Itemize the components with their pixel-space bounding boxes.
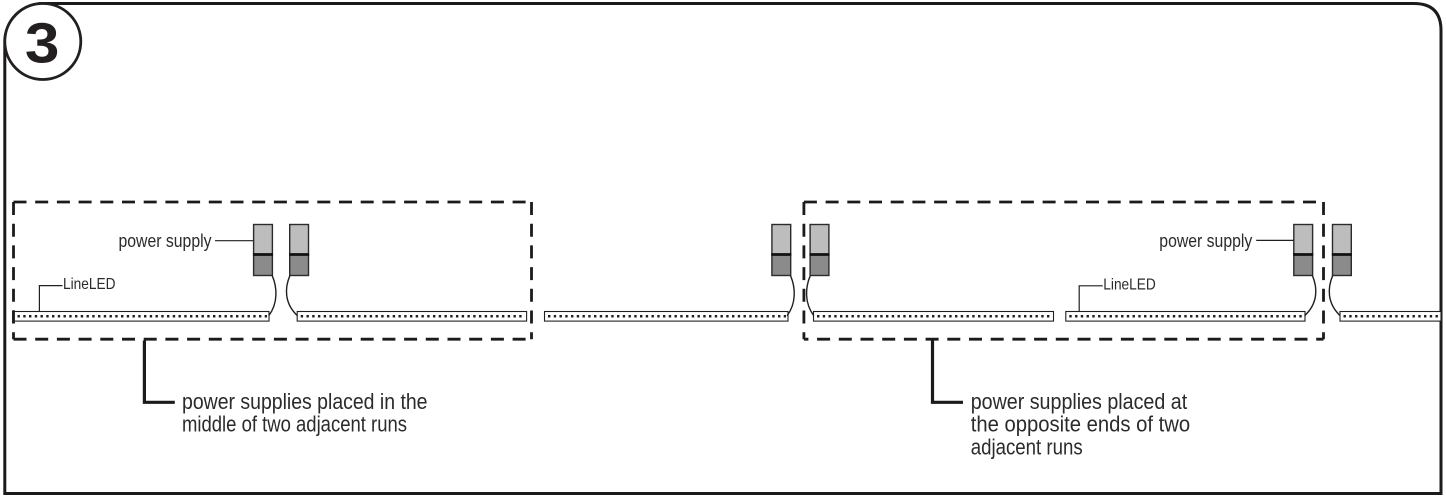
power supply PSU3 (middle pair, left unit)	[771, 225, 791, 276]
wire from PSU5 to segment E	[1305, 276, 1316, 316]
callout elbow line right	[933, 341, 964, 403]
leader line for right LineLED label	[1079, 286, 1103, 312]
callout elbow line left	[144, 341, 174, 403]
svg-text:middle of two adjacent runs: middle of two adjacent runs	[182, 411, 407, 436]
dashed highlight box left (power supplies in middle of runs)	[14, 202, 532, 339]
power supply PSU4 (middle pair, right unit)	[810, 225, 830, 276]
svg-text:adjacent runs: adjacent runs	[971, 434, 1083, 459]
power supply PSU5 (right box, left unit)	[1293, 225, 1313, 276]
step number circle 3	[5, 4, 81, 80]
wire from PSU1 to segment A	[269, 276, 276, 316]
svg-text:3: 3	[25, 11, 60, 74]
leader line for left power supply label	[215, 240, 254, 242]
svg-text:power supplies placed in the: power supplies placed in the	[182, 389, 428, 414]
wire from PSU6 to segment F	[1329, 276, 1340, 316]
LineLED strip segment B	[297, 312, 526, 322]
dashed highlight box right (power supplies at opposite ends)	[804, 202, 1324, 339]
svg-text:the opposite ends of two: the opposite ends of two	[971, 412, 1190, 437]
LineLED strip segment C	[545, 312, 789, 322]
svg-text:LineLED: LineLED	[63, 276, 116, 293]
svg-text:power supply: power supply	[1159, 230, 1253, 251]
LineLED strip segment F	[1340, 312, 1441, 322]
power supply PSU1 (left box, left unit)	[253, 225, 273, 276]
power supply PSU6 (right of right box)	[1332, 225, 1352, 276]
power supply PSU2 (left box, right unit)	[289, 225, 309, 276]
leader line for left LineLED label	[39, 286, 62, 312]
LineLED strip segment A	[14, 312, 269, 322]
svg-text:power supplies placed at: power supplies placed at	[971, 389, 1187, 414]
svg-text:power supply: power supply	[119, 230, 213, 251]
dash of left box crossing strip (end cap look)	[12, 310, 15, 323]
wire from PSU4 to segment D	[807, 276, 814, 316]
leader line for right power supply label	[1256, 239, 1293, 241]
svg-text:LineLED: LineLED	[1103, 276, 1156, 293]
LineLED strip segment D	[814, 312, 1054, 322]
wire from PSU2 to segment B	[286, 276, 297, 316]
LineLED strip segment E	[1066, 312, 1305, 322]
wire from PSU3 to segment C	[787, 276, 794, 316]
